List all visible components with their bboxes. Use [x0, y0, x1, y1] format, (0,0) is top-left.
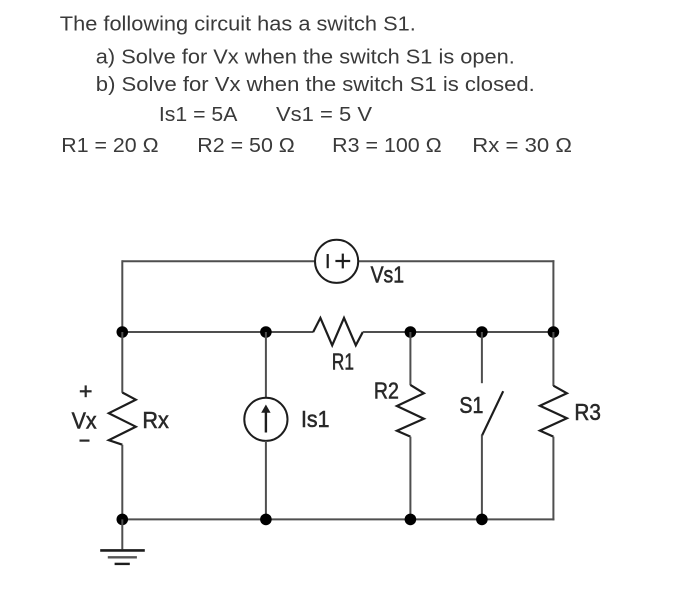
ground [100, 519, 145, 564]
label - polarity of Vx [80, 440, 90, 442]
wire: right rail vertical [552, 260, 554, 332]
svg-text:R3: R3 [574, 399, 601, 425]
svg-text:R2: R2 [374, 377, 399, 403]
node H junction dot [405, 514, 417, 526]
wire: left rail vertical [121, 260, 123, 332]
wire: mid rail from node C to node D [410, 331, 482, 333]
svg-text:Is1: Is1 [301, 406, 330, 432]
node F junction dot (ground node) [117, 514, 129, 526]
wire: Is1 branch upper [265, 332, 267, 398]
wire: left branch lower [121, 445, 123, 520]
svg-text:Rx: Rx [142, 407, 169, 433]
wire: R3 branch lower [552, 437, 554, 521]
wire: top rail right segment [358, 260, 554, 262]
label + polarity of Vx [80, 385, 92, 397]
resistor R2 [397, 385, 424, 437]
wire: mid rail from node A to node B [122, 331, 266, 333]
svg-text:Rx = 30 Ω: Rx = 30 Ω [472, 134, 572, 157]
wire: left branch upper [121, 332, 123, 393]
wire: bottom rail [122, 518, 554, 520]
svg-text:R3 = 100 Ω: R3 = 100 Ω [332, 134, 442, 157]
svg-text:Vs1: Vs1 [371, 262, 405, 288]
wire: mid rail from node B to R1 [266, 331, 314, 333]
wire: R3 branch upper [552, 332, 554, 386]
switch S1 blade [482, 391, 503, 436]
voltage source U Vs1 [315, 240, 358, 283]
wire: Is1 branch lower [265, 441, 267, 520]
wire: mid rail from R1 to node C [363, 331, 411, 333]
svg-text:The following circuit has a sw: The following circuit has a switch S1. [60, 13, 416, 36]
svg-text:a) Solve for Vx when the switc: a) Solve for Vx when the switch S1 is op… [96, 45, 515, 68]
node D junction dot [476, 326, 488, 338]
wire: R2 branch lower [409, 437, 411, 520]
svg-text:Vs1 = 5 V: Vs1 = 5 V [276, 103, 372, 126]
node A junction dot [117, 326, 129, 338]
svg-text:R1: R1 [332, 348, 354, 374]
node G junction dot [260, 514, 272, 526]
wire: mid rail from node D to node E [482, 331, 555, 333]
resistor R3 [540, 386, 567, 437]
svg-text:Vx: Vx [72, 408, 97, 434]
wire: switch branch lower [481, 435, 483, 520]
svg-text:b) Solve for Vx when the switc: b) Solve for Vx when the switch S1 is cl… [96, 73, 535, 96]
current source U Is1 [244, 398, 287, 441]
node B junction dot [260, 326, 272, 338]
node I junction dot [476, 514, 488, 526]
resistor Rx [109, 393, 136, 445]
wire: switch branch upper stub [481, 332, 483, 383]
wire: R2 branch upper [409, 332, 411, 385]
wire: top rail left segment [122, 260, 315, 262]
svg-text:R2 = 50 Ω: R2 = 50 Ω [197, 134, 295, 157]
node E junction dot [548, 326, 560, 338]
svg-text:R1 = 20 Ω: R1 = 20 Ω [61, 134, 158, 157]
svg-text:Is1 = 5A: Is1 = 5A [159, 103, 238, 126]
resistor R1 [313, 318, 363, 345]
svg-text:S1: S1 [459, 392, 483, 418]
node C junction dot [405, 326, 417, 338]
